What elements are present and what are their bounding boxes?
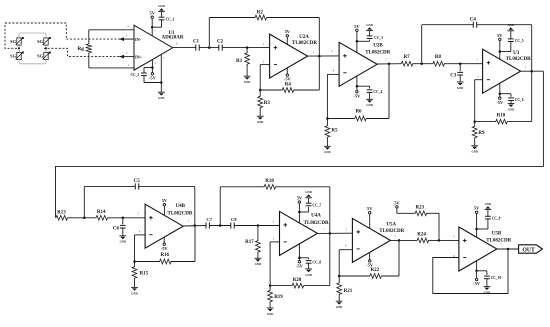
strain gauge SG2 (37, 37, 51, 45)
svg-text:GND: GND (255, 262, 261, 266)
capacitor C5 (134, 179, 141, 189)
resistor R9 (472, 122, 485, 146)
node B2 (122, 217, 125, 220)
wire R23 right run (426, 213, 439, 240)
ground R15 (131, 287, 138, 295)
resistor R14 (96, 210, 108, 220)
node U5B output (507, 248, 510, 251)
svg-text:IN+: IN+ (135, 54, 143, 59)
wire U4B inv input (135, 235, 146, 262)
wire R16 feedback (194, 226, 196, 262)
svg-text:U5B: U5B (492, 231, 502, 236)
pin 6 U1 (176, 43, 178, 46)
resistor R21 (337, 276, 353, 301)
resistor R7 (401, 55, 413, 66)
wire R13 to R14 (67, 217, 96, 219)
svg-text:5V: 5V (497, 33, 503, 38)
label U1 (168, 31, 175, 36)
wire CC_3 to gnd (369, 31, 371, 36)
svg-text:GND: GND (158, 96, 164, 100)
wire R6 feedback (388, 64, 390, 119)
wire U1 ref (160, 55, 162, 93)
wire C5 left run (84, 185, 135, 187)
wire R24 to U5B (428, 239, 459, 241)
svg-text:5V: 5V (150, 11, 156, 16)
wire CC_3 branch (357, 40, 370, 42)
resistor R16 (135, 253, 196, 264)
svg-text:R5: R5 (331, 129, 338, 134)
resistor R15 (132, 262, 149, 288)
pin 5 U4B (138, 213, 140, 216)
svg-text:GND: GND (305, 190, 311, 194)
ground C6 (119, 236, 126, 244)
wire R2 left run (209, 17, 255, 19)
ground R21 (336, 301, 343, 309)
capacitor CC_9 (485, 216, 501, 220)
wire CC_8 branch (299, 258, 308, 260)
capacitor C8 (231, 217, 238, 228)
label U4B TL082CDR (167, 211, 192, 216)
label U4A TL082CDR (304, 221, 329, 226)
svg-text:-5V: -5V (161, 246, 169, 251)
node U2A inv node (259, 89, 262, 92)
svg-text:R19: R19 (274, 295, 283, 300)
wire U5B feedback (433, 249, 508, 294)
capacitor C7 (206, 217, 213, 228)
node U3 inv node (473, 120, 476, 123)
svg-text:Rg: Rg (77, 46, 84, 52)
wire R18 right run (275, 187, 329, 234)
pin 1 U3 (525, 66, 527, 69)
capacitor CC_4 (367, 90, 383, 94)
label U3 (513, 51, 520, 56)
wire U3 out (521, 70, 544, 72)
svg-text:SG: SG (37, 54, 43, 59)
wire CC_6 to gnd (510, 101, 512, 104)
svg-text:GND: GND (336, 305, 342, 309)
node U4B inv node (133, 260, 136, 263)
wire wrap to bottom row (56, 71, 544, 218)
power -5V U3 (496, 83, 504, 105)
svg-text:R14: R14 (97, 210, 106, 215)
wire U2B inv input (327, 74, 339, 118)
wire R20 feedback (329, 233, 331, 285)
svg-text:R22: R22 (370, 268, 379, 273)
capacitor CC_3 (367, 36, 384, 40)
op-amp U2A (270, 34, 308, 78)
wire U2A to U2B (308, 55, 340, 57)
node U2A output (318, 55, 321, 58)
svg-text:U3: U3 (513, 51, 520, 56)
node U4A inv node (269, 284, 272, 287)
ground R17 (255, 258, 262, 266)
node U3 5V junction (499, 50, 502, 53)
svg-text:GND: GND (366, 103, 372, 107)
power -5V U5A (366, 252, 374, 267)
node A4 (459, 62, 462, 64)
strain gauge SG1 (10, 37, 24, 45)
wire C7 to C8 (209, 225, 230, 227)
wire CC_4 branch (357, 86, 370, 88)
svg-text:-5V: -5V (366, 263, 374, 268)
label IN+ (135, 54, 143, 59)
wire R14 to U4B (107, 217, 145, 219)
svg-text:GND: GND (508, 23, 514, 27)
svg-text:GND: GND (267, 312, 273, 316)
wire C5 up (83, 186, 85, 217)
svg-text:5V: 5V (367, 206, 373, 211)
node U5B 5V junction (475, 228, 478, 231)
label U5B (492, 231, 502, 236)
wire dashed left tap (5, 23, 17, 48)
wire C4 left run (422, 24, 474, 26)
power 5V R23 (394, 200, 400, 213)
node bridge right mid (45, 47, 47, 49)
wire U4A inv input (270, 242, 279, 286)
power -5V U2B (353, 76, 361, 98)
node A2 (246, 46, 249, 49)
resistor R10 (475, 113, 532, 124)
svg-text:5V: 5V (285, 29, 291, 34)
ground CC_5 (507, 23, 514, 31)
ground R5 (324, 146, 331, 154)
svg-text:R9: R9 (478, 131, 485, 136)
node U3 output (530, 70, 533, 73)
label U2A TL082CDR (292, 41, 317, 46)
wire R4 feedback (318, 56, 320, 90)
svg-text:R15: R15 (140, 271, 149, 276)
svg-text:GND: GND (324, 150, 330, 154)
svg-text:R17: R17 (245, 240, 254, 245)
svg-text:TL082CDR: TL082CDR (365, 50, 390, 55)
wire bridge top (19, 33, 46, 38)
capacitor CC_2 (131, 73, 147, 77)
label U2B (373, 44, 383, 49)
wire C8 to U4A (234, 225, 279, 227)
pin 2 U3 (477, 75, 479, 78)
svg-text:R7: R7 (404, 55, 411, 60)
pin 6 U5B (453, 255, 455, 258)
ground CC_1 (158, 4, 165, 12)
resistor R13 (56, 210, 68, 220)
wire U4A to U5A (318, 232, 353, 234)
svg-text:C1: C1 (193, 40, 200, 45)
wire CC_2 branch (144, 68, 152, 74)
node B1 (83, 217, 86, 220)
resistor R19 (268, 286, 284, 308)
strain gauge SG3 (10, 52, 24, 60)
wire R18 up (219, 187, 221, 226)
pin 5 U5A (346, 228, 348, 231)
svg-text:C6: C6 (113, 227, 120, 232)
power -5V U4A (296, 244, 304, 269)
capacitor C3 (450, 64, 463, 79)
pin 1 U4A (323, 228, 325, 231)
wire C6 to gnd (122, 228, 124, 236)
label U5A (386, 222, 396, 227)
svg-text:TL082CDR: TL082CDR (304, 221, 329, 226)
pin 5 U5B (453, 236, 455, 239)
wire U1 output (173, 47, 196, 49)
op-amp U5B (459, 227, 497, 271)
svg-text:TL082CDR: TL082CDR (506, 57, 531, 62)
node IN+ arrowhead (119, 55, 134, 59)
wire CC_10 branch (477, 271, 487, 275)
svg-text:CC_9: CC_9 (492, 216, 501, 220)
svg-text:TL082CDR: TL082CDR (292, 41, 317, 46)
svg-text:CC_1: CC_1 (166, 17, 175, 21)
svg-text:C8: C8 (231, 217, 237, 222)
node U1 5V junction (151, 26, 154, 29)
wire dashed IN+ run (44, 48, 120, 56)
resistor R17 (245, 226, 260, 259)
flag OUT (519, 245, 543, 254)
svg-text:5V: 5V (354, 24, 360, 29)
node bridge left mid (18, 47, 20, 49)
pin 7 U2B (385, 58, 387, 61)
wire Rg bottom lead (89, 53, 134, 68)
svg-text:C3: C3 (450, 73, 457, 78)
wire CC_5 to gnd (510, 31, 512, 39)
svg-text:CC_4: CC_4 (373, 90, 382, 94)
svg-text:R16: R16 (160, 253, 169, 258)
svg-text:-5V: -5V (496, 100, 504, 105)
power -5V U4B (161, 237, 169, 251)
svg-text:-5V: -5V (473, 281, 481, 286)
label U4A (311, 214, 321, 219)
wire C3 to gnd (459, 75, 461, 82)
label U5B TL082CDR (486, 238, 511, 243)
wire R2 right run (267, 18, 320, 57)
svg-text:TL082CDR: TL082CDR (486, 238, 511, 243)
capacitor CC_5 (508, 39, 524, 43)
resistor R18 (264, 179, 276, 189)
wire U2A inv input (260, 65, 269, 90)
ground R1 (244, 76, 251, 84)
capacitor CC_10 (484, 276, 501, 280)
node U1 V- junction (151, 66, 154, 69)
svg-text:CC_6: CC_6 (515, 98, 524, 102)
wire CC_10 to gnd (486, 279, 488, 287)
pin 2 U1 (126, 34, 128, 37)
svg-text:TL082CDR: TL082CDR (379, 229, 404, 234)
node U2B 5V junction (356, 40, 359, 43)
wire U5A inv input (339, 250, 352, 276)
wire CC_7 branch (299, 207, 308, 212)
pin 3 U2A (263, 43, 265, 46)
svg-text:GND: GND (508, 108, 514, 112)
svg-text:U2B: U2B (373, 44, 383, 49)
strain gauge SG4 (37, 52, 51, 60)
node A1 (208, 46, 211, 49)
node U5B -5V junction (475, 270, 478, 273)
wire R22 feedback (398, 240, 400, 276)
wire R10 feedback (531, 71, 533, 121)
resistor R6 (327, 109, 389, 121)
wire CC_4 to gnd (369, 92, 371, 99)
svg-text:R1: R1 (236, 59, 243, 64)
resistor R3 (258, 90, 271, 116)
svg-text:SG: SG (37, 39, 43, 44)
power 5V U3 (497, 33, 503, 59)
svg-text:R4: R4 (285, 83, 292, 88)
wire CC_1 to gnd (161, 12, 163, 18)
label U2A (299, 35, 309, 40)
node U2B inv node (326, 117, 329, 120)
node B3 (219, 224, 222, 227)
wire bridge right tap (45, 45, 47, 52)
capacitor C6 (113, 218, 126, 232)
svg-text:R6: R6 (355, 109, 362, 114)
ground R19 (267, 308, 274, 316)
wire CC_1 branch (152, 20, 161, 27)
svg-text:R10: R10 (497, 113, 506, 118)
label U5A TL082CDR (379, 229, 404, 234)
svg-text:U2A: U2A (299, 35, 309, 40)
ground CC_4 (366, 99, 373, 107)
svg-text:GND: GND (120, 240, 126, 244)
power 5V U4B (162, 198, 168, 215)
wire U2B out run (377, 63, 401, 65)
svg-text:GND: GND (485, 202, 491, 206)
svg-text:IN-: IN- (135, 37, 142, 42)
svg-text:GND: GND (471, 150, 477, 154)
pin 3 U1 (126, 52, 128, 55)
svg-text:CC_7: CC_7 (312, 204, 321, 208)
svg-text:CC_5: CC_5 (515, 39, 524, 43)
svg-text:AD620AR: AD620AR (162, 36, 184, 41)
wire CC_7 to gnd (308, 198, 310, 203)
pin 7 U5B (500, 244, 502, 247)
label IN- (135, 37, 142, 42)
op-amp U4B (145, 204, 183, 248)
pin 2 U4A (273, 238, 275, 241)
wire R2 up (208, 18, 210, 48)
power -5V U1 (149, 68, 157, 81)
capacitor CC_1 (159, 17, 175, 21)
svg-text:5V: 5V (297, 195, 303, 200)
svg-text:GND: GND (305, 273, 311, 277)
svg-text:R8: R8 (435, 55, 442, 60)
node U2B -5V junction (356, 85, 359, 88)
wire CC_6 branch (500, 94, 511, 97)
wire C4 up (421, 25, 423, 64)
svg-text:C4: C4 (470, 18, 477, 23)
power 5V U5A (367, 206, 373, 228)
svg-text:R3: R3 (264, 101, 271, 106)
label U2B TL082CDR (365, 50, 390, 55)
resistor R22 (339, 268, 399, 278)
capacitor CC_7 (306, 203, 322, 207)
capacitor CC_8 (306, 261, 322, 265)
svg-text:5V: 5V (474, 206, 480, 211)
pin 1 U2A (313, 51, 315, 54)
capacitor C4 (470, 18, 477, 28)
wire CC_9 to gnd (487, 210, 489, 217)
pin 1 U1 (128, 64, 130, 67)
node U1 ref junction (160, 81, 163, 84)
svg-text:5V: 5V (394, 200, 400, 205)
ground CC_6 (508, 104, 515, 112)
svg-text:R24: R24 (417, 233, 426, 238)
op-amp U3 (483, 49, 521, 93)
wire bridge left tap (18, 45, 20, 52)
resistor R1 (236, 48, 249, 77)
ground R3 (257, 116, 264, 124)
ground CC_3 (366, 23, 373, 31)
svg-text:R20: R20 (293, 278, 302, 283)
svg-text:R13: R13 (57, 210, 66, 215)
svg-text:SG: SG (10, 54, 16, 59)
svg-text:-5V: -5V (353, 93, 361, 98)
capacitor CC_6 (508, 98, 524, 102)
svg-text:U4B: U4B (176, 204, 186, 209)
ground R9 (471, 146, 478, 154)
wire C4 right run (477, 25, 532, 71)
op-amp U5A (352, 218, 390, 262)
node U4B output (194, 224, 197, 227)
svg-text:GND: GND (366, 23, 372, 27)
resistor R4 (260, 83, 319, 93)
capacitor C1 (193, 40, 200, 51)
pin 6 U4B (139, 231, 141, 234)
wire CC_8 to gnd (308, 263, 310, 269)
power 5V U4A (297, 195, 303, 223)
pin 7 U1 (154, 30, 156, 33)
wire R23 left (397, 212, 416, 214)
wire U4B out (183, 225, 206, 228)
svg-text:SG: SG (10, 39, 16, 44)
power 5V U2B (354, 24, 360, 53)
wire CC_9 branch (477, 219, 488, 229)
ground CC_8 (305, 269, 312, 277)
svg-text:-5V: -5V (149, 75, 157, 80)
resistor Rg (77, 44, 91, 53)
svg-text:OUT: OUT (522, 247, 535, 253)
pin 3 U4A (273, 220, 275, 223)
capacitor C2 (217, 40, 224, 51)
node B4 (257, 224, 260, 227)
resistor R5 (325, 119, 338, 147)
wire R8 to U3 (444, 63, 483, 65)
ground CC_7 (305, 190, 312, 198)
svg-text:U4A: U4A (311, 214, 321, 219)
node U4A -5V junction (298, 257, 301, 260)
svg-text:5V: 5V (162, 198, 168, 203)
svg-text:C5: C5 (134, 179, 141, 184)
wire C1 to C2 (199, 47, 219, 49)
svg-text:CC_8: CC_8 (312, 261, 321, 265)
svg-text:C2: C2 (217, 40, 224, 45)
pin 6 U5A (345, 245, 347, 248)
resistor R23 (415, 205, 427, 215)
node U3 -5V junction (499, 92, 502, 95)
pin 7 U4B (188, 221, 190, 224)
wire R18 left run (220, 186, 264, 188)
pin 5 U2B (331, 50, 333, 53)
wire Rg top lead (89, 30, 134, 44)
ground C3 (457, 82, 464, 90)
wire U5B out (497, 248, 519, 250)
label U3 TL082CDR (506, 57, 531, 62)
pin 2 U2A (263, 60, 265, 63)
pin 6 U2B (333, 69, 335, 72)
node U2B output (388, 62, 391, 64)
svg-text:GND: GND (257, 120, 263, 124)
power -5V U2A (284, 68, 292, 82)
ground CC_9 (485, 202, 492, 210)
wire C2 to U2A (222, 47, 269, 49)
